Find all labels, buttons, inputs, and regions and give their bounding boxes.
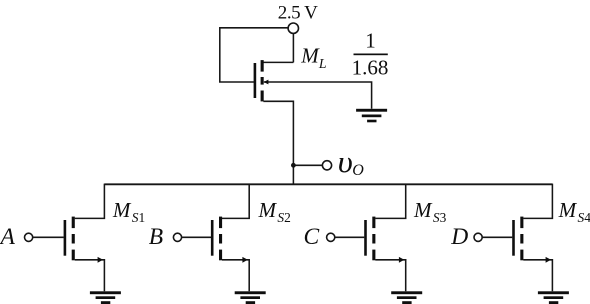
- transistor MS4 with input D: [450, 184, 590, 304]
- ML bulk arrowhead: [264, 80, 269, 85]
- wire drain lead up to rail: [222, 184, 249, 219]
- wire gate lead C: [335, 236, 364, 238]
- MS4 source arrowhead: [546, 257, 551, 263]
- svg-text:M: M: [258, 198, 278, 222]
- svg-text:L: L: [318, 56, 327, 71]
- svg-text:S4: S4: [578, 210, 590, 225]
- wire ML drain lead: [263, 61, 293, 63]
- ML channel dash bottom: [261, 91, 264, 102]
- MS3 channel dash middle: [372, 234, 375, 244]
- svg-text:M: M: [413, 198, 433, 222]
- ML channel dash top: [261, 60, 264, 72]
- svg-text:2.5 V: 2.5 V: [278, 3, 318, 24]
- svg-text:C: C: [304, 224, 320, 250]
- ground under MS1: [90, 291, 121, 294]
- svg-text:D: D: [450, 224, 468, 250]
- MS2 channel dash bottom: [219, 250, 222, 261]
- MS4 channel dash middle: [520, 234, 523, 244]
- MS2 source arrowhead: [242, 257, 247, 263]
- MS4 channel dash top: [520, 217, 523, 229]
- MS1 channel dash middle: [72, 234, 75, 244]
- wire gate lead A: [33, 236, 64, 238]
- wire gate lead B: [182, 236, 211, 238]
- ground under MS3: [391, 291, 422, 294]
- svg-text:S2: S2: [277, 210, 290, 225]
- MS3 channel dash bottom: [372, 250, 375, 261]
- svg-text:M: M: [558, 198, 578, 222]
- MS2 channel dash top: [219, 217, 222, 229]
- svg-text:S3: S3: [433, 210, 447, 225]
- node output junction dot: [291, 163, 296, 168]
- svg-text:υ: υ: [338, 144, 353, 179]
- transistor MS2 with input B: [149, 184, 291, 304]
- wire gate-loop: gate of ML left, up, right to supply: [220, 28, 288, 82]
- node VDD supply terminal circle: [288, 23, 298, 33]
- MS4 channel dash bottom: [520, 250, 523, 261]
- svg-text:1.68: 1.68: [352, 56, 389, 80]
- MS1 gate bar: [64, 220, 67, 256]
- wire gate lead D: [482, 236, 512, 238]
- ML gate bar: [254, 63, 257, 98]
- transistor MS1 with input A: [0, 184, 145, 304]
- wire drain lead up to rail: [523, 184, 552, 219]
- transistor ML (load NMOS, gate tied to VDD, bulk grounded): [254, 60, 269, 101]
- MS2 channel dash middle: [219, 234, 222, 244]
- wire drain lead up to rail: [75, 184, 105, 219]
- ground under MS4: [538, 291, 569, 294]
- svg-text:M: M: [300, 44, 320, 68]
- node input terminal A: [25, 233, 33, 241]
- svg-text:A: A: [0, 224, 16, 250]
- svg-text:M: M: [112, 198, 132, 222]
- node input terminal D: [474, 233, 482, 241]
- MS3 gate bar: [364, 220, 367, 256]
- ML channel dash middle: [261, 77, 264, 85]
- ground under MS2: [235, 291, 266, 294]
- wire output tap to vO terminal: [293, 164, 322, 166]
- wire ML source lead down to output rail: [263, 101, 293, 184]
- MS4 gate bar: [512, 220, 515, 256]
- MS1 channel dash top: [72, 217, 75, 229]
- wire drain lead up to rail: [375, 184, 405, 219]
- wire source lead down to ground: [375, 260, 405, 292]
- svg-text:S1: S1: [132, 210, 145, 225]
- wire output rail: [104, 183, 552, 185]
- MS2 gate bar: [211, 220, 214, 256]
- node input terminal C: [327, 233, 335, 241]
- node vO terminal circle: [322, 161, 331, 170]
- wire supply circle down to ML drain: [292, 33, 294, 62]
- transistor MS3 with input C: [304, 184, 447, 304]
- svg-text:B: B: [149, 224, 163, 250]
- svg-text:O: O: [352, 162, 364, 179]
- svg-text:1: 1: [365, 28, 376, 52]
- wire source lead down to ground: [222, 260, 249, 292]
- MS1 source arrowhead: [98, 257, 103, 263]
- wire ML bulk lead to ground: [264, 82, 372, 109]
- wire source lead down to ground: [523, 260, 552, 292]
- wire source lead down to ground: [75, 260, 105, 292]
- ground for ML bulk: [356, 109, 387, 122]
- MS3 source arrowhead: [399, 257, 404, 263]
- MS3 channel dash top: [372, 217, 375, 229]
- node input terminal B: [173, 233, 181, 241]
- MS1 channel dash bottom: [72, 250, 75, 261]
